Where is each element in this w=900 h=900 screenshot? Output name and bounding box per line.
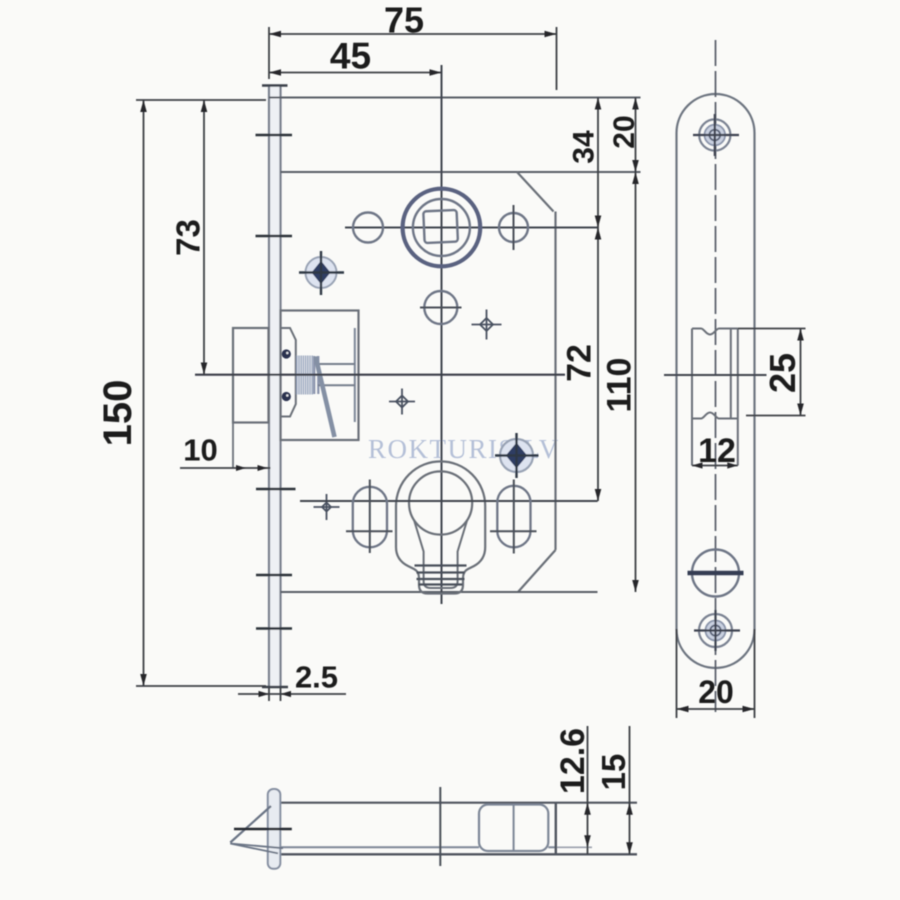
svg-text:2.5: 2.5 (295, 660, 338, 695)
svg-text:45: 45 (330, 36, 371, 77)
svg-text:12.6: 12.6 (554, 728, 592, 794)
svg-text:34: 34 (568, 130, 601, 164)
svg-text:15: 15 (595, 754, 632, 791)
svg-text:20: 20 (608, 115, 641, 148)
svg-text:25: 25 (762, 353, 803, 393)
svg-text:73: 73 (170, 219, 207, 256)
svg-text:150: 150 (96, 380, 140, 447)
svg-text:10: 10 (183, 433, 217, 468)
svg-text:72: 72 (561, 344, 599, 382)
svg-text:12: 12 (698, 432, 736, 470)
svg-text:110: 110 (601, 358, 639, 413)
svg-text:75: 75 (384, 0, 424, 41)
svg-text:20: 20 (698, 674, 734, 710)
